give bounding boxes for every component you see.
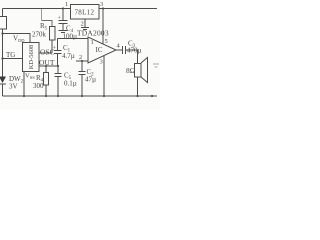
- svg-text:1: 1: [91, 39, 94, 46]
- svg-text:2: 2: [79, 54, 82, 61]
- svg-text:270k: 270k: [32, 31, 47, 39]
- ground bus wire: [3, 95, 158, 97]
- wire pin 2 stub: [76, 60, 88, 62]
- ground symbol under C4: [59, 31, 68, 33]
- resistor R (cut off at left edge): [0, 17, 7, 30]
- wire VSS lead: [23, 72, 25, 96]
- capacitor C4 100u: [59, 9, 68, 31]
- node OUT-C1 junction dot: [57, 65, 59, 67]
- capacitor C2 47u: [79, 61, 86, 96]
- svg-text:0.1µ: 0.1µ: [64, 80, 77, 88]
- wire speaker to ground: [137, 77, 139, 96]
- node C4 rail junction dot: [62, 7, 64, 9]
- zener diode DW2: [0, 77, 6, 97]
- wire R5 bottom lead: [51, 40, 53, 53]
- svg-text:TG: TG: [6, 51, 15, 59]
- op-amp IC TDA2003 triangle: [88, 37, 116, 63]
- svg-text:KD-5608: KD-5608: [28, 45, 35, 70]
- wire OUT pin line: [39, 65, 58, 67]
- speaker 8 ohm: [135, 58, 148, 83]
- wire R4 bottom lead: [45, 85, 47, 96]
- resistor R4: [44, 73, 49, 86]
- IC KD-5608 voice chip: [23, 43, 40, 72]
- wire left drop from rail: [2, 9, 4, 17]
- node OUT-R4 junction dot: [45, 65, 47, 67]
- wire pin 3 ground drop: [103, 56, 105, 96]
- svg-text:470µ: 470µ: [127, 47, 142, 55]
- capacitor C3 470u electrolytic: [123, 46, 126, 54]
- svg-text:3: 3: [100, 1, 103, 8]
- svg-text:5: 5: [105, 38, 108, 45]
- wire R5 top lead to rail: [42, 21, 53, 27]
- svg-text:TDA2003: TDA2003: [77, 29, 109, 38]
- node pin2-C2 junction dot: [81, 60, 83, 62]
- svg-text:IC: IC: [96, 46, 103, 54]
- wire R5 top faint riser: [41, 9, 43, 21]
- wire VDD branch: [3, 34, 31, 43]
- svg-text:47µ: 47µ: [85, 76, 96, 84]
- svg-text:8Ω: 8Ω: [126, 66, 136, 75]
- node pin5 rail junction dot: [102, 7, 104, 9]
- resistor R5: [50, 27, 56, 41]
- svg-text:2: 2: [81, 21, 84, 28]
- wire pin 4 output: [116, 49, 122, 51]
- node TG junction dot: [1, 57, 3, 59]
- wire TG branch: [3, 58, 23, 60]
- svg-text:100µ: 100µ: [63, 33, 78, 41]
- wire R4 top lead: [45, 66, 47, 72]
- wire pin 5 supply drop: [102, 9, 104, 45]
- wire output to speaker: [126, 50, 138, 63]
- capacitor C1: [54, 39, 62, 67]
- svg-text:300: 300: [33, 82, 44, 90]
- svg-text:1: 1: [65, 1, 68, 8]
- wire OSC pin stub: [39, 52, 52, 54]
- svg-text:OUT: OUT: [39, 58, 55, 67]
- wire 78L12 pin 2: [84, 19, 86, 27]
- regulator 78L12: [71, 5, 100, 20]
- svg-text:4.7µ: 4.7µ: [62, 52, 75, 60]
- node VDD junction dot: [1, 32, 3, 34]
- wire to pin 1 of TDA2003: [58, 38, 89, 40]
- wire top supply rail right: [99, 8, 157, 10]
- wire left vertical to zener: [2, 29, 4, 77]
- svg-text:3: 3: [100, 59, 103, 66]
- wire top supply rail left: [3, 8, 71, 10]
- ground symbol under 78L12: [81, 28, 89, 30]
- capacitor C5 0.1u: [55, 66, 62, 96]
- svg-text:3V: 3V: [9, 83, 18, 91]
- svg-text:78L12: 78L12: [75, 9, 95, 17]
- ground symbol right faint: [153, 64, 159, 67]
- node ground dots: [23, 95, 153, 97]
